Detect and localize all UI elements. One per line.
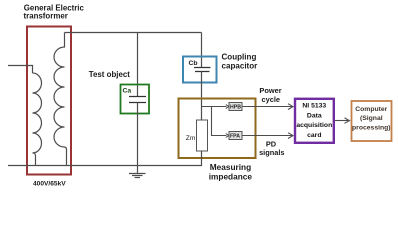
svg-text:HPB: HPB bbox=[230, 105, 241, 111]
svg-text:Computer: Computer bbox=[355, 106, 387, 113]
svg-text:(Signal: (Signal bbox=[360, 115, 383, 122]
svg-text:Test object: Test object bbox=[89, 70, 130, 79]
label: Coupling capacitor bbox=[222, 52, 259, 70]
resistor Zm bbox=[197, 120, 208, 151]
svg-text:transformer: transformer bbox=[24, 11, 68, 20]
svg-text:Ca: Ca bbox=[123, 88, 132, 95]
wire: NI card to computer bbox=[335, 120, 349, 122]
arrowhead into NI card bottom bbox=[288, 133, 293, 139]
svg-text:PD: PD bbox=[266, 140, 277, 149]
label: General Electric transformer bbox=[24, 4, 85, 21]
svg-text:Measuring: Measuring bbox=[210, 162, 252, 172]
wire: primary input lead (left) bbox=[8, 66, 33, 74]
filter block FPA bbox=[229, 132, 242, 140]
svg-text:Zm: Zm bbox=[186, 135, 196, 142]
transformer primary winding (left coil) bbox=[33, 73, 42, 166]
svg-text:impedance: impedance bbox=[209, 171, 253, 181]
computer box (orange) bbox=[352, 101, 392, 141]
label: Power cycle bbox=[259, 86, 281, 104]
transformer enclosure box (red) bbox=[27, 27, 71, 175]
wire: top HV bus from transformer to coupling capacitor bbox=[65, 32, 202, 34]
arrowhead into NI card top bbox=[288, 104, 293, 110]
NI 5133 data acquisition card box (purple) bbox=[295, 99, 334, 143]
capacitor Ca plates bbox=[129, 97, 146, 103]
svg-text:card: card bbox=[307, 132, 321, 139]
ground symbol bbox=[129, 173, 146, 175]
wire: branch to HPB filter bbox=[202, 106, 227, 108]
svg-text:NI 5133: NI 5133 bbox=[302, 103, 326, 110]
svg-text:cycle: cycle bbox=[262, 95, 281, 104]
svg-text:capacitor: capacitor bbox=[222, 62, 259, 71]
transformer secondary winding (right coil) bbox=[54, 33, 67, 166]
arrowhead into HPB bbox=[226, 105, 229, 109]
wire: bottom ground bus bbox=[8, 151, 202, 166]
wire: FPA output to NI card (PD signals) bbox=[242, 135, 292, 137]
svg-text:Cb: Cb bbox=[189, 60, 198, 67]
svg-text:processing): processing) bbox=[352, 125, 391, 132]
wire: HPB output to NI card (power cycle) bbox=[242, 106, 292, 108]
svg-text:FPA: FPA bbox=[230, 134, 240, 140]
svg-text:Power: Power bbox=[259, 86, 281, 95]
svg-text:acquisition: acquisition bbox=[296, 122, 332, 129]
arrowhead into FPA bbox=[226, 134, 229, 138]
filter block HPB bbox=[229, 103, 242, 111]
capacitor Cb plates bbox=[194, 68, 211, 72]
wire: branch down to FPA filter bbox=[212, 107, 227, 136]
svg-text:Coupling: Coupling bbox=[222, 52, 257, 61]
coupling capacitor box (blue) bbox=[183, 57, 217, 83]
svg-text:Data: Data bbox=[307, 112, 322, 119]
svg-text:400V/65kV: 400V/65kV bbox=[33, 181, 66, 188]
label: PD signals bbox=[259, 140, 284, 158]
measuring impedance box (brown) bbox=[179, 99, 256, 159]
wire: coupling capacitor drop bbox=[201, 33, 203, 68]
arrowhead into computer bbox=[345, 118, 350, 123]
wire: drop from top bus to test object capacitor bbox=[137, 33, 139, 97]
svg-text:signals: signals bbox=[259, 148, 284, 157]
test object box (green) bbox=[121, 85, 150, 114]
wire: test object to ground bus bbox=[137, 103, 139, 173]
wire: coupling capacitor to measuring impedance bbox=[201, 72, 203, 120]
label: Measuring impedance bbox=[209, 162, 253, 182]
